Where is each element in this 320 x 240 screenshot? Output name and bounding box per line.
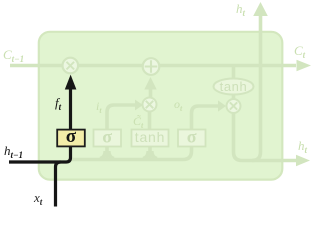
input x node [143, 98, 157, 112]
output sigma box (faded) [178, 127, 206, 147]
i_t arrowhead [135, 100, 143, 111]
h_t right arrowhead [296, 155, 310, 166]
h_t top branch [252, 16, 261, 161]
plus node on C line [143, 58, 160, 75]
output x node [227, 99, 241, 113]
tanh oval [214, 79, 254, 95]
riser to input sigma [105, 147, 109, 160]
tanh box (faded) [132, 129, 169, 147]
input sigma box (faded) [94, 127, 122, 147]
forget arrowhead (black) [65, 75, 77, 90]
forget x node on C line [63, 58, 79, 74]
forget gate wire up (black) [69, 90, 72, 130]
forget sigma box (yellow) [57, 126, 85, 147]
plus arrowhead [144, 77, 156, 90]
x node to plus arrow [149, 89, 153, 97]
hidden state line (faded right part) [70, 147, 192, 160]
riser to tanh box [148, 147, 152, 160]
h_t-1 input wire (black) [9, 147, 71, 162]
output sigma top curve to x node [192, 106, 219, 130]
tanh box to x node [148, 111, 152, 130]
oval to output x node [232, 95, 236, 101]
svg-text:σ: σ [66, 126, 77, 147]
o_t arrowhead [218, 100, 226, 111]
svg-text:tanh: tanh [135, 129, 165, 145]
svg-text:σ: σ [102, 127, 112, 147]
input sigma top curve to x node [107, 105, 135, 130]
x_t input wire (black) [56, 162, 61, 207]
branch from C line down to tanh oval [232, 66, 236, 80]
output path from x node down to h_t [234, 112, 297, 161]
svg-text:σ: σ [187, 127, 197, 147]
cell body rounded rect [39, 32, 282, 180]
riser fillets [100, 151, 157, 159]
svg-text:tanh: tanh [220, 79, 248, 94]
h_t top arrowhead [253, 2, 268, 16]
cell state line C [10, 64, 296, 68]
cell state arrowhead C_t [297, 60, 312, 72]
